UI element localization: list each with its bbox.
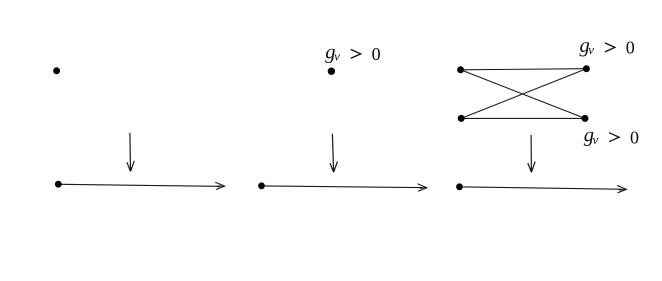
svg-text:v: v bbox=[593, 132, 599, 147]
svg-text:v: v bbox=[334, 49, 340, 64]
svg-text:v: v bbox=[588, 42, 594, 57]
svg-text:0: 0 bbox=[372, 44, 381, 64]
svg-text:0: 0 bbox=[626, 38, 635, 58]
svg-text:0: 0 bbox=[630, 127, 639, 147]
